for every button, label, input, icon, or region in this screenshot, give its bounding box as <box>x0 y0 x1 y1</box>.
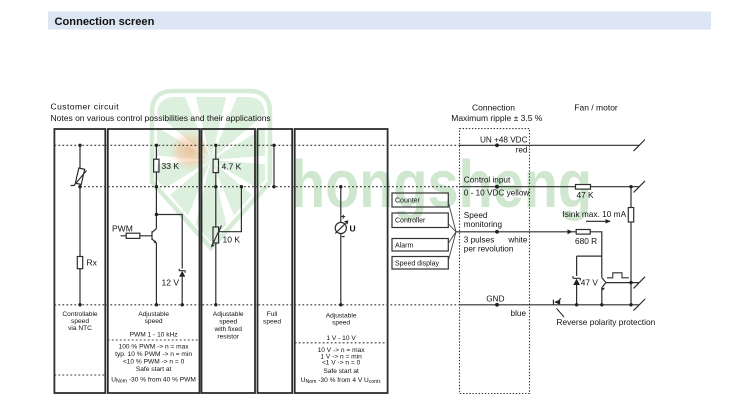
caption box3 <box>213 311 244 341</box>
rails <box>54 145 459 375</box>
node speed out cross <box>629 281 632 284</box>
zener diode 47V bar <box>573 276 580 280</box>
node conn speed <box>495 230 499 234</box>
box5 caption separator <box>295 342 388 344</box>
svg-text:Counter: Counter <box>395 198 421 205</box>
box Controller <box>392 213 448 228</box>
svg-text:47 V: 47 V <box>581 277 599 287</box>
svg-text:10 K: 10 K <box>223 235 241 245</box>
leader speed display <box>449 232 457 260</box>
caption box4 <box>263 311 281 326</box>
box1 lower dashed line <box>54 374 105 376</box>
node conn control <box>495 185 499 189</box>
node box2 zener gnd <box>181 303 184 306</box>
node zener branch gnd <box>575 303 578 306</box>
node box2 top <box>155 144 158 147</box>
node pull gnd <box>629 303 632 306</box>
svg-text:Speed display: Speed display <box>395 260 439 267</box>
wire pull line vertical <box>630 187 632 305</box>
wire PWM base lead <box>121 235 153 237</box>
svg-text:via NTC: via NTC <box>68 325 92 332</box>
svg-text:Fan / motor: Fan / motor <box>574 102 618 112</box>
svg-text:Alarm: Alarm <box>395 242 413 249</box>
svg-text:Reverse polarity protection: Reverse polarity protection <box>557 317 656 327</box>
svg-text:hongsheng: hongsheng <box>291 147 592 222</box>
wire +48VDC rail solid <box>460 144 640 146</box>
svg-text:Control input: Control input <box>464 175 511 184</box>
cable slash marks <box>634 140 646 311</box>
wire zener to gnd <box>181 277 183 305</box>
box Counter <box>392 193 448 207</box>
svg-text:3 pulses: 3 pulses <box>464 236 495 245</box>
svg-text:Full: Full <box>267 311 278 318</box>
svg-text:<1 V -> n = 0: <1 V -> n = 0 <box>322 359 361 366</box>
node box3 top <box>214 144 217 147</box>
node box5 control <box>339 185 342 188</box>
svg-text:white: white <box>507 236 528 245</box>
watermark orange dot <box>169 130 211 172</box>
potentiometer wiper branch <box>219 187 242 232</box>
svg-text:Speed: Speed <box>464 211 488 220</box>
transistor Q2 emitter arrow <box>602 288 606 291</box>
svg-text:U: U <box>350 224 356 234</box>
voltmeter minus sign <box>342 236 345 238</box>
node box3 gnd <box>214 303 217 306</box>
svg-text:1 V - 10 V: 1 V - 10 V <box>326 335 356 342</box>
svg-text:0 - 10 VDC yellow: 0 - 10 VDC yellow <box>464 189 530 198</box>
caption box5 <box>301 313 382 386</box>
svg-text:PWM: PWM <box>112 224 133 234</box>
box Alarm <box>392 239 448 252</box>
node box2 branch <box>155 213 158 216</box>
svg-text:UN +48 VDC: UN +48 VDC <box>480 135 528 144</box>
wire GND rail solid <box>460 304 640 306</box>
svg-text:resistor: resistor <box>217 334 239 341</box>
connection box dashed frame <box>460 129 530 394</box>
watermark logo icon (green shield with radiating wedges) <box>125 74 592 248</box>
Isink arrow <box>586 220 607 222</box>
zener diode 12V <box>179 269 185 273</box>
title bar <box>48 12 711 30</box>
node box2 control <box>155 185 158 188</box>
speed line arrow <box>568 229 573 234</box>
svg-text:speed: speed <box>263 319 281 326</box>
voltmeter U circle <box>335 222 346 233</box>
svg-text:47 K: 47 K <box>577 190 595 200</box>
svg-text:UNom -30 % from 40 % PWM: UNom -30 % from 40 % PWM <box>111 376 196 384</box>
box 4 frame (full speed) <box>258 129 293 393</box>
leader controller <box>449 224 457 232</box>
box 2 frame (PWM adjustable speed) <box>108 129 200 393</box>
caption box2 <box>111 311 196 385</box>
resistor 33K <box>154 159 159 172</box>
wire 33K branch <box>155 145 157 228</box>
svg-text:Safe start at: Safe start at <box>323 368 359 375</box>
potentiometer 10K body <box>213 227 219 243</box>
wire 4.7K branch <box>215 145 217 304</box>
svg-text:<10 % PWM -> n = 0: <10 % PWM -> n = 0 <box>123 358 185 365</box>
wire GND rail dashed (caption separator) <box>54 304 459 306</box>
node box3 control <box>214 185 217 188</box>
caption box1 <box>62 311 98 332</box>
transistor Q1 <box>152 229 156 243</box>
svg-text:Connection: Connection <box>472 102 515 112</box>
node box3 wiper <box>240 185 243 188</box>
svg-text:Connection screen: Connection screen <box>55 16 155 28</box>
svg-text:per revolution: per revolution <box>464 245 514 254</box>
potentiometer arrowhead <box>211 244 215 248</box>
box2 caption separator <box>108 339 200 341</box>
thermistor NTC body <box>75 168 84 184</box>
svg-text:Controller: Controller <box>395 218 426 225</box>
svg-text:PWM 1 - 10 kHz: PWM 1 - 10 kHz <box>130 331 178 338</box>
svg-text:UNom -30 % from 4 V Ucontr.: UNom -30 % from 4 V Ucontr. <box>301 377 382 385</box>
leader alarm <box>449 232 457 243</box>
zener 12V triangle <box>179 271 185 277</box>
svg-text:speed: speed <box>145 318 163 325</box>
wire box1 vertical <box>79 145 81 304</box>
wire transistor collector <box>601 256 603 278</box>
wire control input rail dashed <box>80 186 460 188</box>
svg-text:Maximum ripple ± 3.5 %: Maximum ripple ± 3.5 % <box>451 113 543 123</box>
voltmeter needle arrowhead <box>344 220 348 224</box>
wire emitter to gnd <box>601 288 603 305</box>
svg-text:GND: GND <box>486 294 504 303</box>
slash blue <box>634 299 646 311</box>
resistor 47K <box>576 185 591 190</box>
node box1 gnd <box>78 303 81 306</box>
resistor Isink vertical <box>628 208 633 223</box>
box 3 frame (fixed resistor) <box>202 129 256 393</box>
resistor PWM series <box>126 233 140 238</box>
svg-text:speed: speed <box>219 319 237 326</box>
node emitter gnd <box>600 303 603 306</box>
potentiometer arrow <box>213 226 222 245</box>
transistor Q2 <box>602 278 606 288</box>
voltmeter needle <box>335 223 345 233</box>
wire speed line to corner <box>590 232 602 256</box>
node box1 control <box>78 185 81 188</box>
svg-text:Notes on various control possi: Notes on various control possibilities a… <box>51 113 271 123</box>
resistor 4.7K <box>213 159 218 172</box>
svg-text:speed: speed <box>71 318 89 325</box>
svg-text:Adjustable: Adjustable <box>213 311 244 318</box>
svg-text:Isink max. 10 mA: Isink max. 10 mA <box>563 209 627 219</box>
svg-text:Adjustable: Adjustable <box>326 313 357 320</box>
leader reverse polarity <box>557 308 565 317</box>
svg-text:680 R: 680 R <box>575 236 597 246</box>
node box1 top <box>78 144 81 147</box>
node box4 control <box>272 185 275 188</box>
node box4 top <box>272 144 275 147</box>
svg-text:Rx: Rx <box>87 258 98 268</box>
wire voltmeter <box>340 187 342 305</box>
resistor Rx <box>77 257 82 269</box>
transistor Q1 emitter arrow <box>154 240 157 243</box>
node box2 emitter gnd <box>155 303 158 306</box>
pulse waveform symbol <box>607 273 629 278</box>
node box5 gnd <box>339 303 342 306</box>
svg-text:100 % PWM -> n = max: 100 % PWM -> n = max <box>119 344 190 351</box>
wire speed output <box>606 282 639 284</box>
node pull top <box>629 185 632 188</box>
svg-text:with fixed: with fixed <box>213 326 242 333</box>
leader counter <box>449 203 457 232</box>
wire control input rail solid <box>460 186 640 188</box>
slash yellow <box>634 181 646 193</box>
svg-text:12 V: 12 V <box>162 278 180 288</box>
wire collector branch to zener <box>156 215 182 269</box>
box 5 frame (1V-10V adjustable speed) <box>295 129 388 393</box>
wire +48VDC rail dashed <box>54 144 459 146</box>
zener 47V triangle <box>573 279 580 285</box>
voltmeter plus sign <box>341 215 345 219</box>
svg-text:red: red <box>516 146 528 155</box>
svg-text:Adjustable: Adjustable <box>138 311 169 318</box>
svg-text:Controllable: Controllable <box>62 311 98 318</box>
node conn +48 <box>495 143 499 147</box>
svg-text:Customer circuit: Customer circuit <box>51 102 120 112</box>
svg-text:4.7 K: 4.7 K <box>222 162 242 172</box>
svg-text:typ. 10 % PWM -> n = min: typ. 10 % PWM -> n = min <box>115 351 192 358</box>
wire zener branch <box>577 256 602 305</box>
node conn gnd <box>495 303 499 307</box>
svg-text:speed: speed <box>332 320 350 327</box>
wire emitter down <box>155 243 157 305</box>
svg-text:33 K: 33 K <box>162 161 180 171</box>
svg-text:blue: blue <box>511 309 527 318</box>
slash white <box>634 277 646 289</box>
box 1 frame (controllable speed via NTC) <box>54 129 105 393</box>
resistor 680R <box>576 230 590 235</box>
box Speed display <box>392 257 448 270</box>
svg-text:monitoring: monitoring <box>464 220 503 229</box>
wire full speed link <box>273 145 275 186</box>
diode reverse polarity <box>553 298 560 304</box>
slash red <box>634 140 646 152</box>
wire speed monitoring line <box>456 231 576 233</box>
svg-text:Safe start at: Safe start at <box>136 366 172 373</box>
thermistor strike line <box>71 171 87 186</box>
